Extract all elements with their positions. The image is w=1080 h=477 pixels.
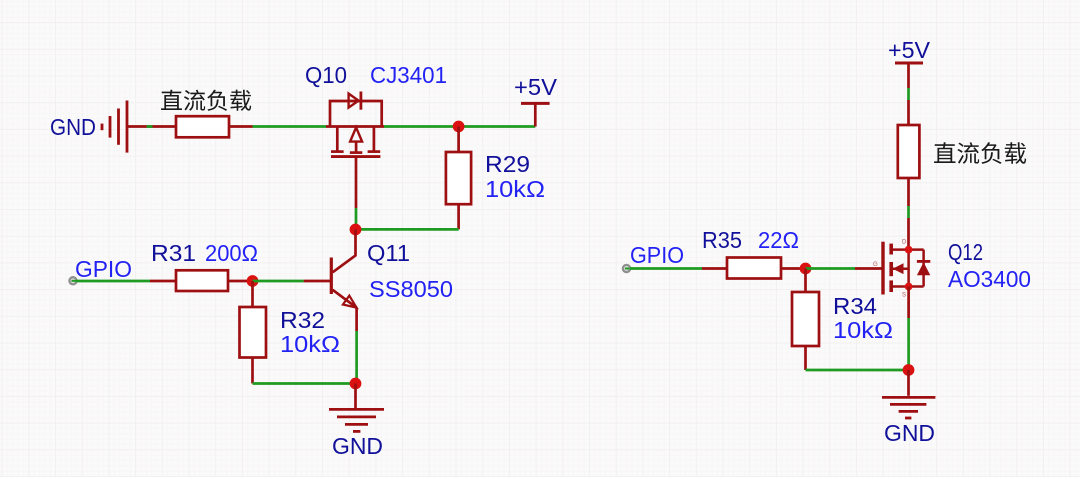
svg-text:S: S [902, 293, 906, 299]
svg-text:R29: R29 [485, 151, 530, 177]
ground symbol (rotated, left input) [101, 124, 104, 131]
wire: Q10 gate lead down [355, 157, 358, 208]
svg-text:R35: R35 [702, 227, 742, 253]
svg-text:Q10: Q10 [305, 62, 347, 88]
junction dot R31/R32/base [247, 275, 259, 287]
junction dot R35/R34/gate [800, 263, 812, 275]
label 直流负载 (left) [161, 90, 251, 111]
wire: Q10 drain rail to +5V [384, 125, 535, 128]
svg-text:GPIO: GPIO [630, 242, 684, 268]
svg-text:AO3400: AO3400 [948, 266, 1031, 292]
transistor Q12 (N-MOSFET) [883, 242, 930, 295]
svg-text:D: D [902, 240, 907, 246]
svg-text:10kΩ: 10kΩ [280, 331, 340, 357]
svg-text:+5V: +5V [514, 74, 558, 100]
label 直流负载 (right) [934, 142, 1026, 164]
svg-text:200Ω: 200Ω [205, 240, 258, 266]
wire: R31 to junction [228, 280, 253, 283]
svg-text:Q12: Q12 [948, 239, 983, 265]
svg-text:CJ3401: CJ3401 [370, 62, 447, 88]
resistor R35 22Ω [727, 258, 781, 279]
pin GPIO (left) [69, 277, 76, 284]
wire: load resistor to Q10 source [229, 125, 253, 128]
wire: emitter to ground node [355, 331, 358, 384]
junction dot Q10 gate / R29 / Q11 collector [350, 224, 362, 236]
svg-text:10kΩ: 10kΩ [833, 317, 893, 343]
svg-text:GPIO: GPIO [75, 256, 132, 282]
svg-text:GND: GND [50, 114, 96, 140]
svg-text:R32: R32 [280, 307, 325, 333]
resistor R29 10k [457, 127, 460, 153]
svg-text:10kΩ: 10kΩ [485, 176, 545, 202]
wire: R34 bottom to ground node [806, 369, 909, 372]
wire: R35 to junction [781, 267, 806, 270]
pin GPIO (right) [623, 265, 630, 272]
DC load resistor (right) [898, 125, 920, 178]
resistor R32 10k [251, 281, 254, 307]
wire: R32 bottom to ground node [253, 382, 356, 385]
wire: ground to load resistor [128, 125, 176, 128]
svg-text:SS8050: SS8050 [369, 276, 453, 302]
transistor Q11 (NPN) [304, 230, 357, 332]
junction dot at ground node (left) [350, 378, 362, 390]
wire: junction to Q11 base [253, 280, 304, 283]
ground symbol GND (left circuit) [354, 384, 357, 409]
resistor R31 200Ω [176, 270, 228, 291]
svg-text:Q11: Q11 [367, 240, 410, 266]
junction dot at +5V rail / R29 [453, 121, 465, 133]
svg-text:R31: R31 [151, 240, 196, 266]
ground symbol GND (right circuit) [907, 370, 910, 396]
svg-text:+5V: +5V [888, 37, 931, 63]
svg-text:GND: GND [884, 420, 935, 446]
wire: +5V to load resistor [907, 64, 910, 89]
svg-text:R34: R34 [833, 293, 877, 319]
svg-text:G: G [873, 262, 878, 268]
svg-text:22Ω: 22Ω [758, 227, 799, 253]
transistor Q10 (P-MOSFET) [326, 92, 384, 157]
junction dot at ground node (right) [903, 364, 915, 376]
svg-text:GND: GND [332, 433, 383, 459]
wire: Q12 source down to ground node [907, 287, 910, 319]
DC load resistor (left) [176, 116, 229, 137]
wire: junction to Q12 gate [806, 267, 856, 270]
power flag +5V (left) [521, 102, 550, 105]
wire: load resistor to Q12 drain [907, 178, 910, 206]
pin labels D G S of Q12 [873, 240, 907, 299]
wire: GPIO to R31 [76, 280, 150, 283]
wire: GPIO to R35 [630, 267, 702, 270]
resistor R34 10k [804, 269, 807, 293]
wire: R29 bottom to Q10 gate node [356, 228, 459, 231]
